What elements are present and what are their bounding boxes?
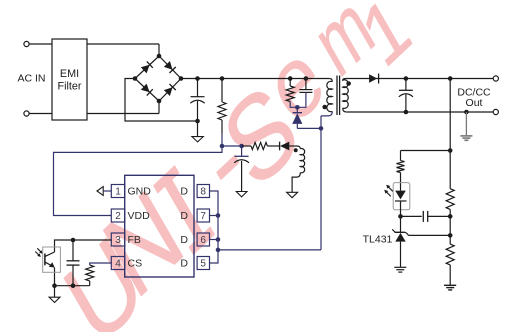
node out cap top — [404, 76, 409, 81]
svg-text:D: D — [180, 258, 188, 270]
resistor vdd — [251, 142, 267, 149]
resistor divider lower — [449, 235, 451, 244]
wire drain bus — [210, 191, 219, 263]
wire — [267, 145, 279, 147]
wire — [29, 43, 52, 45]
capacitor output — [405, 79, 407, 91]
transformer core — [336, 76, 338, 116]
ground bulk — [197, 121, 199, 137]
wire — [242, 145, 251, 147]
shunt TL431 — [392, 229, 395, 232]
node bridge top — [157, 54, 162, 59]
watermark UNI-Sem1 — [46, 211, 162, 332]
wire led branch — [401, 150, 451, 152]
wire CS — [90, 263, 112, 265]
capacitor bulk — [197, 79, 199, 97]
svg-text:EMI: EMI — [60, 68, 79, 80]
wire aux top lead — [297, 146, 300, 149]
wire — [87, 43, 159, 45]
svg-text:AC IN: AC IN — [17, 73, 45, 85]
svg-text:3: 3 — [115, 235, 121, 246]
diode D2 bridge top-right — [164, 61, 176, 73]
wire startup to vdd — [221, 133, 223, 146]
resistor snubber — [289, 79, 291, 87]
diode D3 bridge left-bottom — [141, 84, 153, 96]
optocoupler transistor box — [43, 247, 61, 272]
wire pin7 stub — [210, 215, 219, 217]
node out cap bottom — [404, 110, 409, 115]
wire — [449, 216, 451, 235]
pin 4 box — [111, 257, 124, 270]
svg-text:D: D — [180, 234, 188, 246]
node emitter — [52, 283, 57, 288]
node drain clamp — [319, 126, 324, 131]
svg-text:D: D — [180, 186, 188, 198]
terminal AC neutral — [24, 111, 29, 116]
svg-text:CS: CS — [128, 258, 143, 270]
capacitor FB — [72, 240, 74, 261]
wire cs ground rail — [55, 285, 90, 287]
wire secondary top rail — [346, 78, 494, 80]
diode D4 bridge bottom-right — [164, 84, 176, 96]
pin 5 box — [197, 257, 209, 270]
terminal out+ — [493, 76, 498, 81]
node bulk cap top — [195, 76, 200, 81]
svg-text:4: 4 — [115, 259, 121, 270]
node bridge bottom — [157, 99, 162, 104]
resistor CS — [86, 265, 94, 281]
svg-text:Out: Out — [466, 97, 483, 109]
diode D1 bridge left-top — [141, 61, 153, 73]
zener clamp — [296, 107, 298, 112]
wire drain — [320, 116, 322, 250]
node bulk cap bottom — [195, 119, 200, 124]
ground TL431 — [394, 266, 406, 268]
ground opto — [49, 297, 60, 302]
svg-text:GND: GND — [128, 186, 152, 198]
svg-text:VDD: VDD — [128, 210, 151, 222]
svg-text:6: 6 — [200, 235, 206, 246]
opto photons arrows — [37, 248, 41, 252]
ground aux winding — [287, 192, 298, 197]
node pin7 — [216, 213, 221, 218]
wire primary bottom lead — [321, 111, 332, 116]
svg-text:FB: FB — [128, 234, 141, 246]
node primary phase dot — [322, 105, 327, 110]
wire — [29, 113, 52, 115]
capacitor comp — [401, 215, 422, 217]
wire snubber C bottom — [297, 92, 306, 107]
opto led arrows — [387, 186, 393, 192]
wire — [158, 44, 160, 56]
wire FB — [55, 240, 112, 252]
node aux phase dot — [294, 148, 298, 152]
EMI filter block — [52, 39, 87, 120]
node bridge left — [133, 76, 138, 81]
node snubber junction — [295, 105, 300, 110]
pin 1 box — [111, 185, 124, 198]
node bridge right — [179, 76, 184, 81]
svg-text:7: 7 — [200, 211, 206, 222]
node pin6 — [216, 237, 221, 242]
node secondary phase dot — [346, 81, 351, 86]
wire sense divider — [449, 79, 451, 189]
node led cathode — [398, 214, 403, 219]
capacitor snubber — [305, 79, 307, 90]
pin 6 box — [197, 233, 209, 246]
terminal out- — [493, 109, 498, 114]
svg-text:Filter: Filter — [58, 81, 82, 93]
node divider ref — [448, 233, 453, 238]
node led branch tap — [448, 148, 453, 153]
node out gnd — [464, 110, 469, 115]
terminal AC line — [24, 41, 29, 46]
optocoupler transistor — [45, 252, 54, 256]
ground output earth — [465, 112, 467, 136]
transformer primary winding — [327, 79, 332, 112]
ground vdd cap — [236, 192, 247, 197]
diode output — [369, 74, 377, 83]
pin 8 box — [197, 185, 209, 198]
svg-text:TL431: TL431 — [363, 234, 393, 246]
wire vdd rail — [222, 145, 242, 147]
diode opto led — [395, 191, 406, 200]
wire — [158, 101, 160, 114]
wire ref — [408, 234, 450, 236]
wire DC+ rail — [181, 78, 329, 80]
node divider cap — [448, 214, 453, 219]
node startup top — [220, 76, 225, 81]
capacitor vdd — [241, 146, 243, 156]
resistor led — [397, 161, 405, 173]
node vdd rail A — [220, 144, 225, 149]
svg-text:D: D — [180, 210, 188, 222]
ground divider — [444, 284, 456, 286]
node sense tap — [448, 76, 453, 81]
node vdd rail B — [239, 144, 244, 149]
wire — [87, 113, 159, 115]
node snubber R top — [288, 76, 293, 81]
wire pin6 stub — [210, 239, 219, 241]
wire zener to drain — [297, 127, 321, 129]
wire snubber R bottom — [290, 102, 297, 108]
pin 2 box — [111, 209, 124, 222]
resistor startup — [221, 79, 223, 103]
wire secondary bottom rail — [346, 111, 493, 113]
optocoupler led box — [393, 183, 410, 210]
node FB cap top — [71, 238, 76, 243]
node cs rail — [71, 283, 76, 288]
svg-text:2: 2 — [115, 211, 121, 222]
svg-text:8: 8 — [200, 187, 206, 198]
op IC U1 body — [125, 175, 194, 277]
wire bridge edges — [135, 56, 181, 101]
svg-text:5: 5 — [200, 259, 206, 270]
node snubber C top — [304, 76, 309, 81]
pin 3 box — [111, 233, 124, 246]
node drain tap — [216, 248, 221, 253]
diode vdd — [279, 142, 281, 151]
transformer aux winding — [292, 148, 305, 192]
transformer secondary winding — [343, 79, 349, 113]
wire DC- return — [125, 79, 198, 122]
pin 7 box — [197, 209, 209, 222]
wire vdd loop — [54, 146, 223, 216]
svg-text:1: 1 — [115, 187, 121, 198]
resistor divider upper — [446, 189, 454, 210]
ground pin1 arrow — [97, 187, 103, 196]
